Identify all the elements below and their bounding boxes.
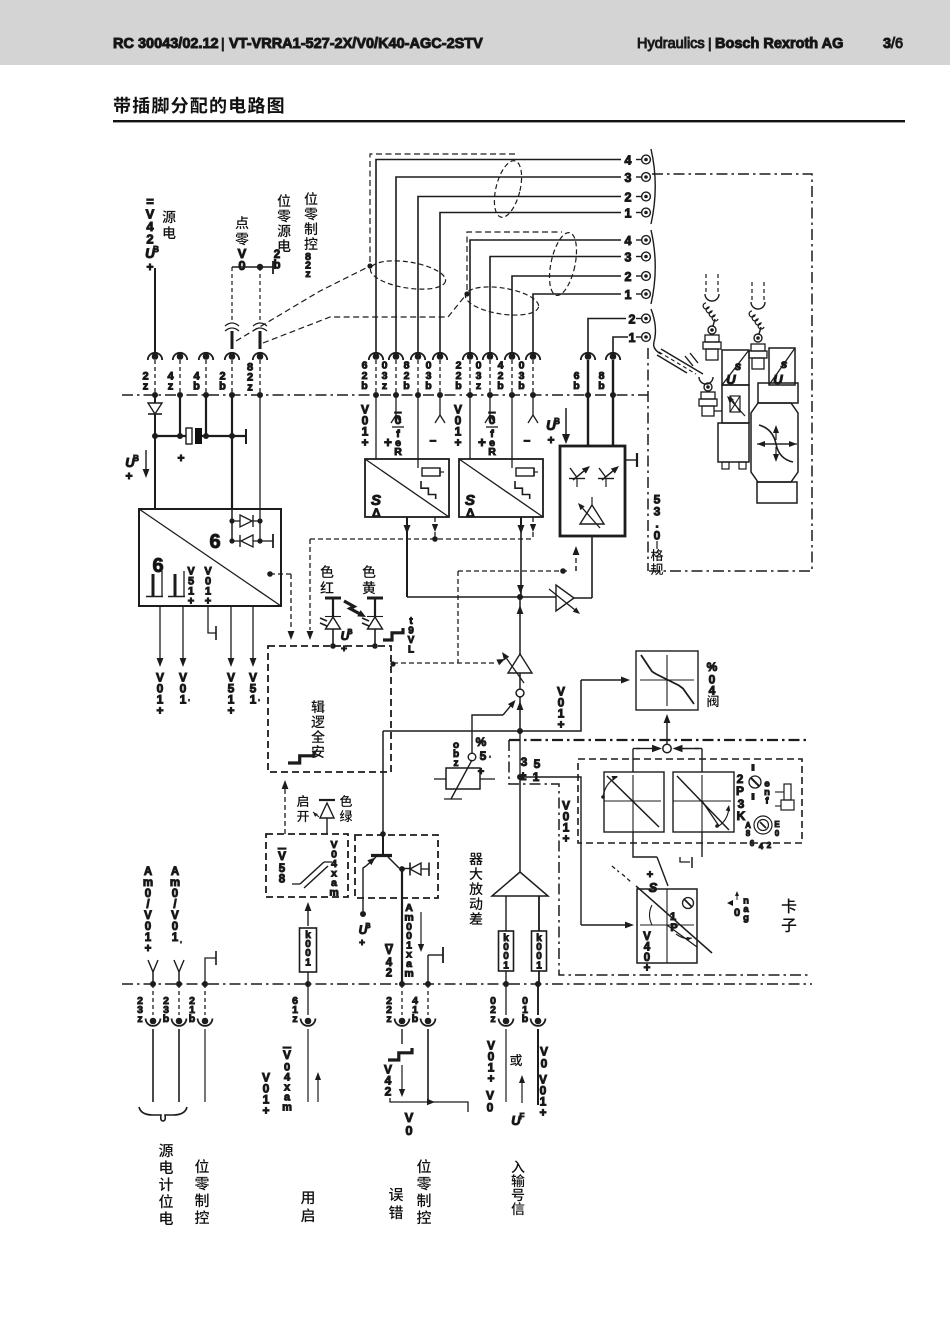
svg-text:V: V	[278, 849, 286, 863]
wire U2 output (dashed)	[532, 517, 534, 527]
svg-text:0: 0	[487, 1100, 494, 1114]
cable ellipse B1	[545, 230, 582, 298]
bottom terminal x=153	[150, 981, 156, 987]
svg-text:b: b	[412, 1013, 418, 1025]
svg-text:P: P	[670, 922, 677, 934]
LVDT transducer s/U pilot valve	[722, 350, 749, 385]
bottom terminal x=205	[202, 981, 208, 987]
svg-text:0: 0	[775, 829, 780, 838]
electrolytic capacitor	[186, 428, 192, 444]
label differential amplifier	[469, 853, 482, 865]
wire solenoid cable 2 conductor 4	[533, 294, 621, 354]
svg-text:+: +	[562, 831, 569, 845]
svg-text:z: z	[137, 1013, 142, 1025]
signal converter U1 (S/delta)	[365, 459, 449, 517]
svg-text:z: z	[143, 381, 149, 393]
label sub-card	[782, 898, 796, 913]
label enable	[301, 1191, 314, 1204]
trim dial	[754, 816, 772, 834]
svg-text:B: B	[153, 245, 159, 254]
wire solenoid cable 2 conductor 1	[470, 240, 621, 354]
svg-text:z: z	[168, 381, 174, 393]
wire b28 to U1 feedback resistor	[417, 395, 419, 468]
terminal x=512	[509, 353, 516, 360]
svg-text:6: 6	[209, 531, 220, 553]
wire to position transducer box	[520, 777, 581, 925]
svg-text:Δ: Δ	[466, 506, 475, 520]
pilot valve body	[722, 385, 749, 423]
output stage solenoid driver symbols	[570, 468, 577, 478]
svg-text:8: 8	[279, 874, 286, 886]
svg-text:1: 1	[629, 331, 636, 345]
flyback diode	[409, 863, 411, 876]
svg-text:s: s	[735, 359, 742, 373]
cable shield outline B	[467, 232, 562, 290]
connector X1 pin 4	[642, 155, 651, 164]
cable ellipse B2	[463, 282, 540, 319]
svg-text:z: z	[382, 380, 387, 392]
svg-text:2: 2	[625, 270, 632, 284]
stub b30 with fork	[439, 395, 441, 415]
label zero adjust 2	[417, 1159, 431, 1173]
svg-text:m: m	[282, 1102, 292, 1114]
wire valve command into output stage	[591, 536, 593, 598]
terminal (power group) x=155	[152, 353, 159, 360]
svg-text:–: –	[524, 433, 531, 447]
svg-text:1: 1	[172, 932, 179, 944]
svg-text:s: s	[781, 357, 788, 371]
svg-text:|: |	[708, 35, 712, 51]
svg-text:+: +	[188, 596, 194, 608]
terminal x=533	[530, 353, 537, 360]
wire from summing to transistor	[382, 731, 384, 853]
connector X1 pin 2	[642, 192, 651, 201]
label error	[389, 1188, 403, 1202]
terminal x=440	[437, 353, 444, 360]
wire b6 to output stage	[587, 360, 589, 446]
transistor (emitter follower)	[371, 854, 392, 857]
svg-text:2: 2	[629, 313, 636, 327]
pulse symbols	[152, 574, 155, 596]
reverse polarity diode	[154, 395, 156, 403]
svg-text:b: b	[189, 1013, 195, 1025]
bottom terminal x=506	[503, 981, 509, 987]
solenoid plug A	[705, 274, 707, 292]
enable comparator box	[266, 834, 348, 897]
potentiometer brace	[139, 1107, 187, 1121]
mixing circle	[663, 744, 671, 752]
svg-text:+: +	[384, 435, 392, 450]
dashed enable into output stage	[575, 552, 577, 571]
step symbol safety	[288, 751, 314, 763]
dashed wire enable to safety	[284, 788, 286, 834]
svg-text:+: +	[125, 469, 132, 483]
wire solenoid cable 2 conductor 2	[490, 257, 621, 355]
svg-text:b: b	[497, 380, 503, 392]
bottom terminal x=308	[305, 981, 311, 987]
monitor output pin	[267, 571, 273, 577]
wire terminal b26 to U1	[375, 395, 377, 459]
connector X1 pin 3	[642, 173, 651, 182]
connector X1 pin 1	[642, 208, 651, 217]
wire +UB supply	[154, 268, 156, 353]
svg-text:1: 1	[625, 288, 632, 302]
card boundary chain line (bottom)	[122, 983, 812, 985]
terminal x=396	[393, 353, 400, 360]
power supply box	[139, 509, 281, 606]
svg-text:/6: /6	[891, 36, 903, 52]
summing junction circle	[516, 689, 524, 697]
svg-text:–: –	[430, 433, 437, 447]
signal converter U2 (S/delta)	[459, 459, 543, 517]
wire terminal b22 to U2	[469, 395, 471, 459]
svg-text:4: 4	[709, 683, 716, 697]
plug P3 on pilot valve	[699, 377, 713, 384]
wire U2 output (solid)	[520, 517, 522, 525]
svg-text:1: 1	[250, 692, 257, 706]
flash symbol	[344, 601, 361, 615]
svg-text:%: %	[476, 735, 487, 749]
connector X2 pin 4	[642, 236, 651, 245]
svg-text:+: +	[145, 943, 152, 955]
input resistors 100k	[505, 896, 507, 931]
svg-text:5: 5	[480, 749, 487, 763]
label zero point supply pin b2	[277, 194, 290, 207]
svg-text:+: +	[361, 435, 368, 449]
mechanical link diagonal	[636, 886, 712, 953]
label signal input	[512, 1160, 525, 1173]
svg-text:1: 1	[536, 960, 542, 971]
wire command summing line	[407, 596, 556, 598]
screw head	[683, 898, 694, 909]
svg-text:P: P	[736, 784, 744, 798]
main valve flow arrows	[762, 443, 789, 445]
svg-text:0: 0	[489, 413, 496, 427]
stub b30(2) with fork	[532, 395, 534, 415]
adjustable amp (zero)	[508, 654, 532, 673]
characteristic box right (K3)	[673, 772, 734, 832]
svg-text:b: b	[403, 380, 409, 392]
svg-text:g: g	[743, 912, 749, 923]
LED green	[319, 799, 335, 801]
output stage adjustable amp	[580, 505, 604, 524]
cable ellipse A1	[489, 158, 526, 220]
svg-text:2: 2	[767, 841, 772, 850]
svg-text:b: b	[518, 380, 524, 392]
label enable / green	[297, 795, 308, 807]
terminal x=613	[610, 353, 617, 360]
wire U1 output (solid)	[406, 517, 408, 525]
svg-text:L: L	[408, 644, 414, 655]
svg-text:b: b	[598, 380, 604, 392]
cable ellipse A2	[368, 256, 447, 294]
svg-text:ˈ: ˈ	[188, 698, 191, 708]
valve-side chain line	[509, 739, 810, 741]
svg-text:1: 1	[305, 957, 311, 968]
svg-text:m: m	[329, 887, 338, 899]
svg-text:+: +	[478, 435, 486, 450]
svg-text:+: +	[227, 703, 234, 717]
bottom wires below terminals	[152, 1029, 154, 1102]
valve characteristic box 40%	[636, 651, 698, 710]
solenoid plug B	[751, 282, 753, 300]
output stage box	[560, 446, 625, 536]
svg-text:z: z	[247, 382, 253, 394]
actuator icon	[784, 784, 791, 800]
svg-text:V: V	[283, 1048, 291, 1062]
collector wire + flyback diode	[388, 857, 399, 868]
wire b24 to U2 feedback resistor	[511, 395, 513, 468]
svg-text:B: B	[365, 923, 370, 930]
label safety logic	[311, 700, 324, 713]
svg-text:B: B	[133, 454, 139, 463]
svg-text:0: 0	[541, 1056, 548, 1070]
svg-text:+: +	[359, 938, 365, 949]
wires into power supply	[179, 395, 181, 436]
error wire step + arrow	[401, 1029, 403, 1044]
zero trim potentiometer 5%	[446, 768, 480, 789]
bottom terminal x=538	[535, 981, 541, 987]
svg-text:b: b	[361, 380, 367, 392]
wires from trim boxes down	[633, 832, 657, 857]
arrow current direction	[420, 912, 422, 944]
wire solenoid cable 1 conductor 3	[418, 197, 621, 355]
cable shield outline A	[370, 154, 516, 262]
svg-text:RC 30043/02.12: RC 30043/02.12	[113, 36, 219, 52]
svg-text:+: +	[487, 1071, 494, 1085]
header bar	[0, 0, 950, 65]
wire 0V zero-point link	[232, 266, 273, 268]
svg-text:+: +	[177, 451, 184, 465]
wire curve box output	[666, 722, 668, 744]
svg-text:+: +	[454, 435, 461, 449]
svg-text:Δ: Δ	[372, 506, 381, 520]
svg-text:z: z	[292, 1013, 297, 1025]
svg-text:R: R	[394, 446, 402, 458]
svg-text:b: b	[522, 1013, 528, 1025]
svg-text:b: b	[219, 381, 226, 393]
internal suppressor diodes	[231, 509, 233, 541]
bottom terminal x=179	[176, 981, 182, 987]
svg-text:+: +	[644, 963, 651, 975]
connector X2 pin 2	[642, 272, 651, 281]
svg-text:z: z	[305, 268, 310, 280]
svg-text:V: V	[385, 945, 393, 957]
svg-text:b: b	[193, 381, 200, 393]
shield wire to cable screen B	[263, 296, 465, 343]
svg-text:|: |	[221, 35, 225, 51]
connector X3 pin 2	[642, 314, 651, 323]
gain amp triangle (right)	[556, 585, 574, 611]
trim block dashed box	[578, 759, 802, 843]
dashed wire to enable net	[458, 570, 570, 572]
wire to valve curve box	[520, 680, 581, 731]
label gain	[727, 900, 733, 906]
wire solenoid cable 2 conductor 3	[512, 276, 621, 354]
svg-text:Hydraulics: Hydraulics	[637, 36, 705, 52]
connector X2 pin 1	[642, 290, 651, 299]
terminal x=418	[415, 353, 422, 360]
svg-text:b: b	[425, 380, 431, 392]
svg-text:6: 6	[750, 839, 755, 848]
svg-text:R: R	[488, 446, 496, 458]
wire solenoid cable 1 conductor 2	[396, 177, 621, 354]
svg-text:0: 0	[734, 907, 740, 919]
characteristic box left (P2)	[604, 772, 664, 832]
wire solenoid cable 1 conductor 1	[376, 160, 621, 355]
svg-text:1: 1	[503, 960, 509, 971]
dashed actual-value bus	[310, 538, 533, 540]
svg-text:5: 5	[534, 757, 541, 771]
main valve body	[758, 383, 798, 403]
svg-text:1: 1	[625, 207, 632, 221]
svg-text:1: 1	[180, 692, 187, 706]
shield capacitor symbol right	[253, 323, 267, 326]
LED yellow	[367, 597, 383, 600]
LVDT transducer s/U main valve	[769, 348, 795, 385]
svg-text:3: 3	[625, 251, 632, 265]
svg-text:0: 0	[405, 1123, 412, 1138]
dashed from power supply monitor	[270, 573, 291, 575]
svg-text:2: 2	[625, 191, 632, 205]
wire solenoid cable 1 conductor 4	[440, 213, 621, 355]
svg-text:3: 3	[521, 755, 528, 769]
svg-text:b: b	[455, 380, 461, 392]
terminal x=490	[487, 353, 494, 360]
power supply outputs	[159, 606, 161, 658]
page title	[114, 97, 130, 114]
svg-text:z: z	[454, 758, 459, 769]
svg-text:4: 4	[625, 154, 632, 168]
svg-text:8: 8	[746, 829, 751, 838]
bottom terminal x=428	[425, 981, 431, 987]
zero adjust stub	[205, 958, 216, 984]
terminal x=588	[585, 353, 592, 360]
valve unit boundary (size 530)	[649, 174, 812, 571]
label zero adjust shield z28	[304, 192, 317, 205]
connector X2 pin 3	[642, 252, 651, 261]
bottom terminal x=402	[399, 981, 405, 987]
svg-text:2: 2	[385, 1084, 392, 1098]
svg-text:+: +	[146, 260, 153, 274]
svg-text:+: +	[557, 717, 564, 731]
card boundary chain line (top)	[122, 394, 648, 396]
svg-text:+: +	[262, 1103, 269, 1117]
stub z30(2) with fork	[489, 395, 491, 415]
switch contacts	[292, 883, 300, 885]
dashed wires to bottom terminals	[152, 984, 154, 1015]
svg-text:3: 3	[883, 36, 891, 52]
position transducer box P1	[637, 889, 697, 963]
wire U1 output (dashed)	[434, 517, 436, 527]
svg-text:0: 0	[395, 413, 402, 427]
svg-text:F: F	[520, 1112, 525, 1121]
svg-text:+: +	[547, 433, 554, 447]
differential amplifier triangle	[492, 872, 548, 896]
svg-text:+: +	[478, 766, 484, 778]
terminal x=376	[373, 353, 380, 360]
LED red	[325, 597, 341, 600]
label zero adjust	[195, 1159, 209, 1173]
wire b8 to output stage	[612, 360, 614, 446]
wire feedback vertical	[519, 597, 521, 654]
svg-text:z: z	[490, 1013, 495, 1025]
svg-text:2: 2	[386, 968, 392, 980]
filter bus	[155, 435, 186, 437]
shield wire to cable screen A	[236, 268, 366, 341]
output stage enable tick	[625, 459, 637, 461]
svg-text:+: +	[205, 596, 211, 608]
svg-text:+: +	[539, 1105, 546, 1119]
svg-text:B: B	[554, 417, 560, 426]
wire -10V rail with fork	[178, 972, 180, 984]
connector X3 wires	[588, 319, 626, 354]
enable input resistor 100k	[307, 911, 309, 926]
connector X3 pin 1	[642, 333, 651, 342]
svg-text:4: 4	[759, 842, 764, 851]
svg-text:b: b	[573, 380, 579, 392]
safety logic box	[268, 646, 391, 772]
svg-text:E: E	[774, 820, 780, 829]
svg-text:Bosch Rexroth AG: Bosch Rexroth AG	[715, 36, 843, 52]
sub-card chain boundary	[509, 740, 810, 975]
terminal x=470	[467, 353, 474, 360]
svg-text:ˈ: ˈ	[258, 698, 261, 708]
trim screw fine	[751, 764, 754, 771]
flexible cable to valve	[661, 349, 703, 374]
transistor box	[355, 835, 438, 898]
svg-text:3: 3	[625, 171, 632, 185]
stub z30 with fork	[395, 395, 397, 415]
svg-text:b: b	[163, 1013, 169, 1025]
stub to 0V tick	[428, 954, 443, 956]
wire +10V rail with fork	[152, 972, 154, 984]
svg-text:+: +	[341, 644, 347, 655]
svg-text:4: 4	[625, 234, 632, 248]
connector shell braces	[651, 149, 655, 224]
emitter wire to UB	[363, 866, 366, 911]
label zero point 0V	[236, 216, 249, 229]
svg-text:B: B	[347, 629, 352, 636]
svg-text:z: z	[386, 1013, 391, 1025]
svg-text:0: 0	[654, 528, 661, 542]
svg-text:S: S	[649, 880, 658, 895]
svg-text:z: z	[476, 380, 481, 392]
svg-text:ˈ: ˈ	[180, 940, 183, 950]
shield capacitor symbol left	[225, 323, 239, 326]
label potentiometer supply	[159, 1143, 173, 1157]
svg-text:U: U	[773, 372, 783, 387]
terminal (power group) x=206	[203, 353, 210, 360]
svg-text:ˈ: ˈ	[489, 755, 492, 764]
svg-text:+: +	[156, 703, 163, 717]
terminal (power group) x=260	[257, 353, 264, 360]
terminal (power group) x=232	[229, 353, 236, 360]
terminal (power group) x=180	[177, 353, 184, 360]
svg-text:m: m	[404, 967, 413, 979]
step symbol yellow	[383, 628, 403, 640]
svg-text:b: b	[273, 260, 280, 272]
svg-text:0: 0	[238, 258, 245, 273]
svg-text:VT-VRRA1-527-2X/V0/K40-AGC-2ST: VT-VRRA1-527-2X/V0/K40-AGC-2STV	[229, 36, 483, 52]
